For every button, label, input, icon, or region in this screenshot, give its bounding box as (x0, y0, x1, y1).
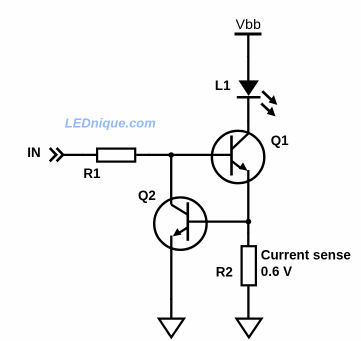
svg-text:R1: R1 (83, 166, 101, 181)
svg-text:R2: R2 (216, 265, 233, 280)
svg-text:Current sense: Current sense (261, 247, 351, 262)
svg-text:0.6 V: 0.6 V (261, 264, 292, 279)
svg-text:Q2: Q2 (138, 188, 156, 203)
svg-text:L1: L1 (215, 78, 231, 93)
svg-text:Q1: Q1 (271, 133, 289, 148)
svg-text:LEDnique.com: LEDnique.com (65, 116, 156, 131)
svg-text:IN: IN (27, 145, 40, 160)
svg-text:Vbb: Vbb (236, 16, 262, 32)
